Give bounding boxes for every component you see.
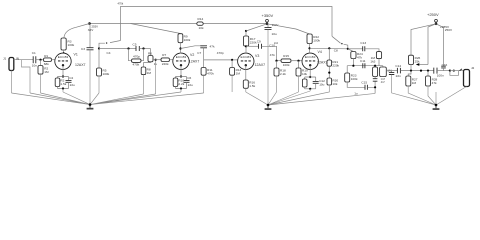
svg-text:100k: 100k xyxy=(68,43,75,47)
svg-text:IN: IN xyxy=(16,57,19,61)
svg-text:470p: 470p xyxy=(217,51,224,55)
svg-text:12AX7: 12AX7 xyxy=(189,60,200,64)
wire V1 anode lead xyxy=(63,50,65,54)
wire P3 to out xyxy=(410,65,412,71)
resistor R3 V1 anode load xyxy=(61,38,66,50)
svg-text:C7: C7 xyxy=(197,51,201,55)
op tube V4 triode xyxy=(302,53,318,69)
svg-text:C5: C5 xyxy=(133,43,137,47)
node RC right xyxy=(139,48,150,50)
wire C3 to ground xyxy=(89,50,91,105)
wire B+ to V1 anode resistor xyxy=(64,24,90,39)
wire C1 to grid node xyxy=(36,59,44,61)
svg-text:250V: 250V xyxy=(445,28,453,32)
resistor R22 V4 anode load xyxy=(267,24,310,34)
op tube V3 triode xyxy=(238,53,254,69)
svg-text:100k: 100k xyxy=(283,63,290,67)
svg-text:47k: 47k xyxy=(270,53,275,57)
wire cathode bar xyxy=(58,77,69,81)
capacitor C10 decoupling xyxy=(267,24,269,28)
op tube V2 triode xyxy=(173,53,189,69)
node cathode V1 xyxy=(62,75,64,77)
resistor R23 xyxy=(346,66,348,73)
svg-text:C14: C14 xyxy=(395,64,401,68)
capacitor C9 coupling V3-V4 xyxy=(246,45,259,47)
svg-text:+250V: +250V xyxy=(427,12,439,17)
wire V2 anode lead xyxy=(180,43,182,54)
node cathode ground xyxy=(62,87,64,89)
resistor R30 divider lower xyxy=(327,78,332,85)
wire V3 grid line xyxy=(204,59,238,61)
svg-text:R1: R1 xyxy=(44,54,48,58)
svg-text:R15: R15 xyxy=(283,54,289,58)
svg-text:C15: C15 xyxy=(361,81,367,85)
svg-text:220k: 220k xyxy=(162,62,169,66)
resistor R2k cathode xyxy=(55,78,60,87)
wire cathode bottom bar xyxy=(58,82,69,88)
svg-text:J1: J1 xyxy=(3,57,7,61)
wire feedback left diagonal xyxy=(99,41,121,49)
svg-text:25k: 25k xyxy=(415,59,420,63)
connector J1 input jack xyxy=(9,58,14,71)
wire V4 anode lead xyxy=(309,44,311,54)
ground 2 xyxy=(267,104,270,107)
svg-text:10k: 10k xyxy=(332,82,337,86)
resistor R2 grid leak 1M xyxy=(40,60,42,66)
wire V1 cathode xyxy=(62,65,64,76)
svg-text:470k: 470k xyxy=(118,1,124,5)
svg-text:ECC83: ECC83 xyxy=(305,55,316,59)
wire feedback top rail xyxy=(121,7,333,41)
svg-text:C4: C4 xyxy=(107,51,111,55)
wire feedback right diagonal xyxy=(332,36,348,49)
node NFB divider tap xyxy=(328,47,330,49)
svg-text:10k: 10k xyxy=(199,26,204,30)
svg-text:1k5: 1k5 xyxy=(370,59,375,63)
resistor R27 xyxy=(408,71,411,76)
capacitor C11k cathode bypass V4 xyxy=(313,81,319,83)
capacitor C11 xyxy=(363,63,365,68)
capacitor C5 bright xyxy=(136,46,139,51)
resistor R21 divider upper xyxy=(328,48,330,60)
wire jack tip branch xyxy=(22,60,31,93)
wire V4 cathode xyxy=(309,65,311,77)
ground fan 1 xyxy=(12,92,204,105)
svg-text:R6: R6 xyxy=(148,52,152,56)
potentiometer P3 presence xyxy=(409,55,414,64)
resistor R16 cathode V3 xyxy=(243,80,248,88)
wire supply dropper to output xyxy=(436,24,444,66)
resistor R11 to ground xyxy=(201,68,206,76)
svg-text:12AX7: 12AX7 xyxy=(317,61,328,65)
node RC left xyxy=(127,47,129,49)
svg-text:10u: 10u xyxy=(272,32,277,36)
node A stage1 output xyxy=(98,47,100,49)
svg-text:R14: R14 xyxy=(198,17,204,21)
svg-text:100k: 100k xyxy=(351,77,358,81)
svg-text:2.2k: 2.2k xyxy=(280,72,286,76)
resistor R18 to ground xyxy=(276,61,278,68)
resistor R5 to ground xyxy=(98,49,100,69)
svg-text:100n: 100n xyxy=(437,73,444,77)
wire output loop xyxy=(450,71,459,76)
svg-text:1.5k: 1.5k xyxy=(60,82,66,86)
node pot top xyxy=(374,65,376,67)
wire B+ rail xyxy=(90,23,268,25)
svg-text:C8: C8 xyxy=(334,48,338,52)
svg-text:R7: R7 xyxy=(162,53,166,57)
capacitor C1 input xyxy=(33,56,36,63)
svg-text:10n: 10n xyxy=(32,63,37,67)
wire V4 anode out xyxy=(310,47,348,50)
potentiometer P1 xyxy=(375,66,383,67)
svg-text:V4: V4 xyxy=(318,50,322,54)
resistor R25 xyxy=(376,52,381,59)
ground fan 2 xyxy=(246,91,310,105)
resistor R15 grid stopper V4 xyxy=(281,59,291,63)
svg-text:22u: 22u xyxy=(188,83,193,87)
capacitor C16 output xyxy=(434,68,437,74)
node V2 anode xyxy=(179,47,181,49)
svg-text:1M: 1M xyxy=(412,81,417,85)
resistor R20 cathode V4 xyxy=(302,79,307,87)
svg-text:C3: C3 xyxy=(81,47,85,51)
node wire junction xyxy=(420,70,422,72)
svg-text:V2: V2 xyxy=(190,53,194,57)
svg-text:47k: 47k xyxy=(432,81,437,85)
svg-text:12AX7: 12AX7 xyxy=(255,63,266,67)
svg-text:V3: V3 xyxy=(255,54,259,58)
resistor R9 V2 anode load xyxy=(178,34,183,43)
svg-text:470k: 470k xyxy=(207,71,214,75)
resistor R19 grid leak V4 xyxy=(297,60,299,62)
resistor R24 xyxy=(348,49,354,52)
wire B+ diagonal to V2 anode xyxy=(131,24,181,34)
wire input xyxy=(14,59,33,61)
wire supply diagonals xyxy=(411,24,436,65)
capacitor C6 cathode bypass V2 xyxy=(184,80,190,82)
resistor R17 V3 anode load xyxy=(245,31,247,36)
capacitor C3 decoupling xyxy=(89,24,91,48)
ground 3 xyxy=(435,104,438,107)
wire grid node to ground xyxy=(155,60,157,94)
wire tone out xyxy=(386,70,397,72)
capacitor C18 to ground xyxy=(391,71,393,73)
resistor divider RB xyxy=(144,62,151,67)
wire V3 cathode xyxy=(245,65,247,80)
node tone stack top xyxy=(347,48,349,50)
node rail left junction xyxy=(88,22,91,25)
capacitor C15 xyxy=(347,82,365,87)
svg-text:+350V: +350V xyxy=(262,13,274,18)
+350V supply terminal xyxy=(266,19,269,22)
connector J2 output jack xyxy=(464,70,470,87)
node divider mid xyxy=(328,66,330,78)
resistor R28 xyxy=(427,70,429,72)
svg-text:255V: 255V xyxy=(92,25,99,29)
svg-text:C11: C11 xyxy=(360,59,366,63)
node grid V1 xyxy=(39,59,41,61)
wire V2 cathode xyxy=(180,65,182,76)
capacitor C13 xyxy=(348,48,363,50)
svg-text:C10: C10 xyxy=(269,43,275,47)
wiper arrow P3 xyxy=(419,64,428,66)
resistor R10 cathode V2 xyxy=(173,78,178,87)
resistor R13 grid leak V3 xyxy=(231,59,233,61)
svg-text:12AX7: 12AX7 xyxy=(75,63,86,67)
svg-text:1.5k: 1.5k xyxy=(249,84,255,88)
svg-text:C13: C13 xyxy=(360,41,366,45)
svg-text:68k: 68k xyxy=(44,62,49,66)
capacitor C7 coupling V2-V3 xyxy=(181,46,204,49)
svg-text:10u: 10u xyxy=(319,82,324,86)
node output xyxy=(449,70,451,72)
svg-text:100k: 100k xyxy=(103,72,110,76)
svg-text:1M: 1M xyxy=(147,71,152,75)
svg-text:100k: 100k xyxy=(184,38,191,42)
svg-text:22u: 22u xyxy=(70,83,75,87)
resistor R7 grid stopper V2 xyxy=(161,58,170,62)
svg-text:ECC83: ECC83 xyxy=(176,55,187,59)
resistor R1 grid stopper xyxy=(44,58,52,62)
svg-text:ECC83: ECC83 xyxy=(241,55,252,59)
svg-text:C2: C2 xyxy=(69,76,73,80)
svg-text:C9: C9 xyxy=(257,39,261,43)
ground 1 xyxy=(89,103,92,106)
node V4 grid xyxy=(275,60,277,62)
+250V supply terminal xyxy=(435,19,438,22)
resistor R6 parallel detour xyxy=(129,49,144,61)
wire R1 to V1 grid xyxy=(52,59,55,61)
wire jack tip contact xyxy=(460,69,462,71)
capacitor C17 xyxy=(373,79,378,82)
wire tone mid xyxy=(347,59,383,66)
svg-text:1M: 1M xyxy=(44,70,49,74)
svg-text:C16: C16 xyxy=(442,63,448,67)
wire node A to RC xyxy=(99,48,136,50)
svg-text:V1: V1 xyxy=(74,52,78,56)
svg-text:C6: C6 xyxy=(187,76,191,80)
potentiometer P2 volume xyxy=(380,67,387,77)
capacitor C14 xyxy=(397,68,400,74)
capacitor C2 cathode bypass xyxy=(66,80,72,82)
svg-text:ECC83: ECC83 xyxy=(58,55,69,59)
svg-text:J2: J2 xyxy=(471,66,475,70)
wire V3 anode lead xyxy=(245,46,247,53)
node B+ sub xyxy=(245,30,247,32)
svg-text:47k: 47k xyxy=(210,44,215,48)
svg-text:470p: 470p xyxy=(133,55,140,59)
op tube V1 triode xyxy=(55,53,71,69)
node B+ junction xyxy=(266,23,269,26)
wire jack sleeve xyxy=(11,71,13,94)
svg-text:2.2k: 2.2k xyxy=(178,82,184,86)
svg-text:1u: 1u xyxy=(354,91,358,95)
resistor divider RA xyxy=(150,49,152,56)
svg-text:100k: 100k xyxy=(313,38,320,42)
svg-text:1M: 1M xyxy=(236,71,241,75)
svg-text:C1: C1 xyxy=(32,51,36,55)
svg-text:4n7: 4n7 xyxy=(381,81,386,84)
svg-text:220k: 220k xyxy=(332,64,339,68)
node V2 grid xyxy=(155,59,157,61)
svg-text:470k: 470k xyxy=(133,63,140,67)
svg-text:10k: 10k xyxy=(302,72,307,76)
svg-text:22n: 22n xyxy=(396,74,401,78)
resistor R14 on rail xyxy=(197,22,203,25)
